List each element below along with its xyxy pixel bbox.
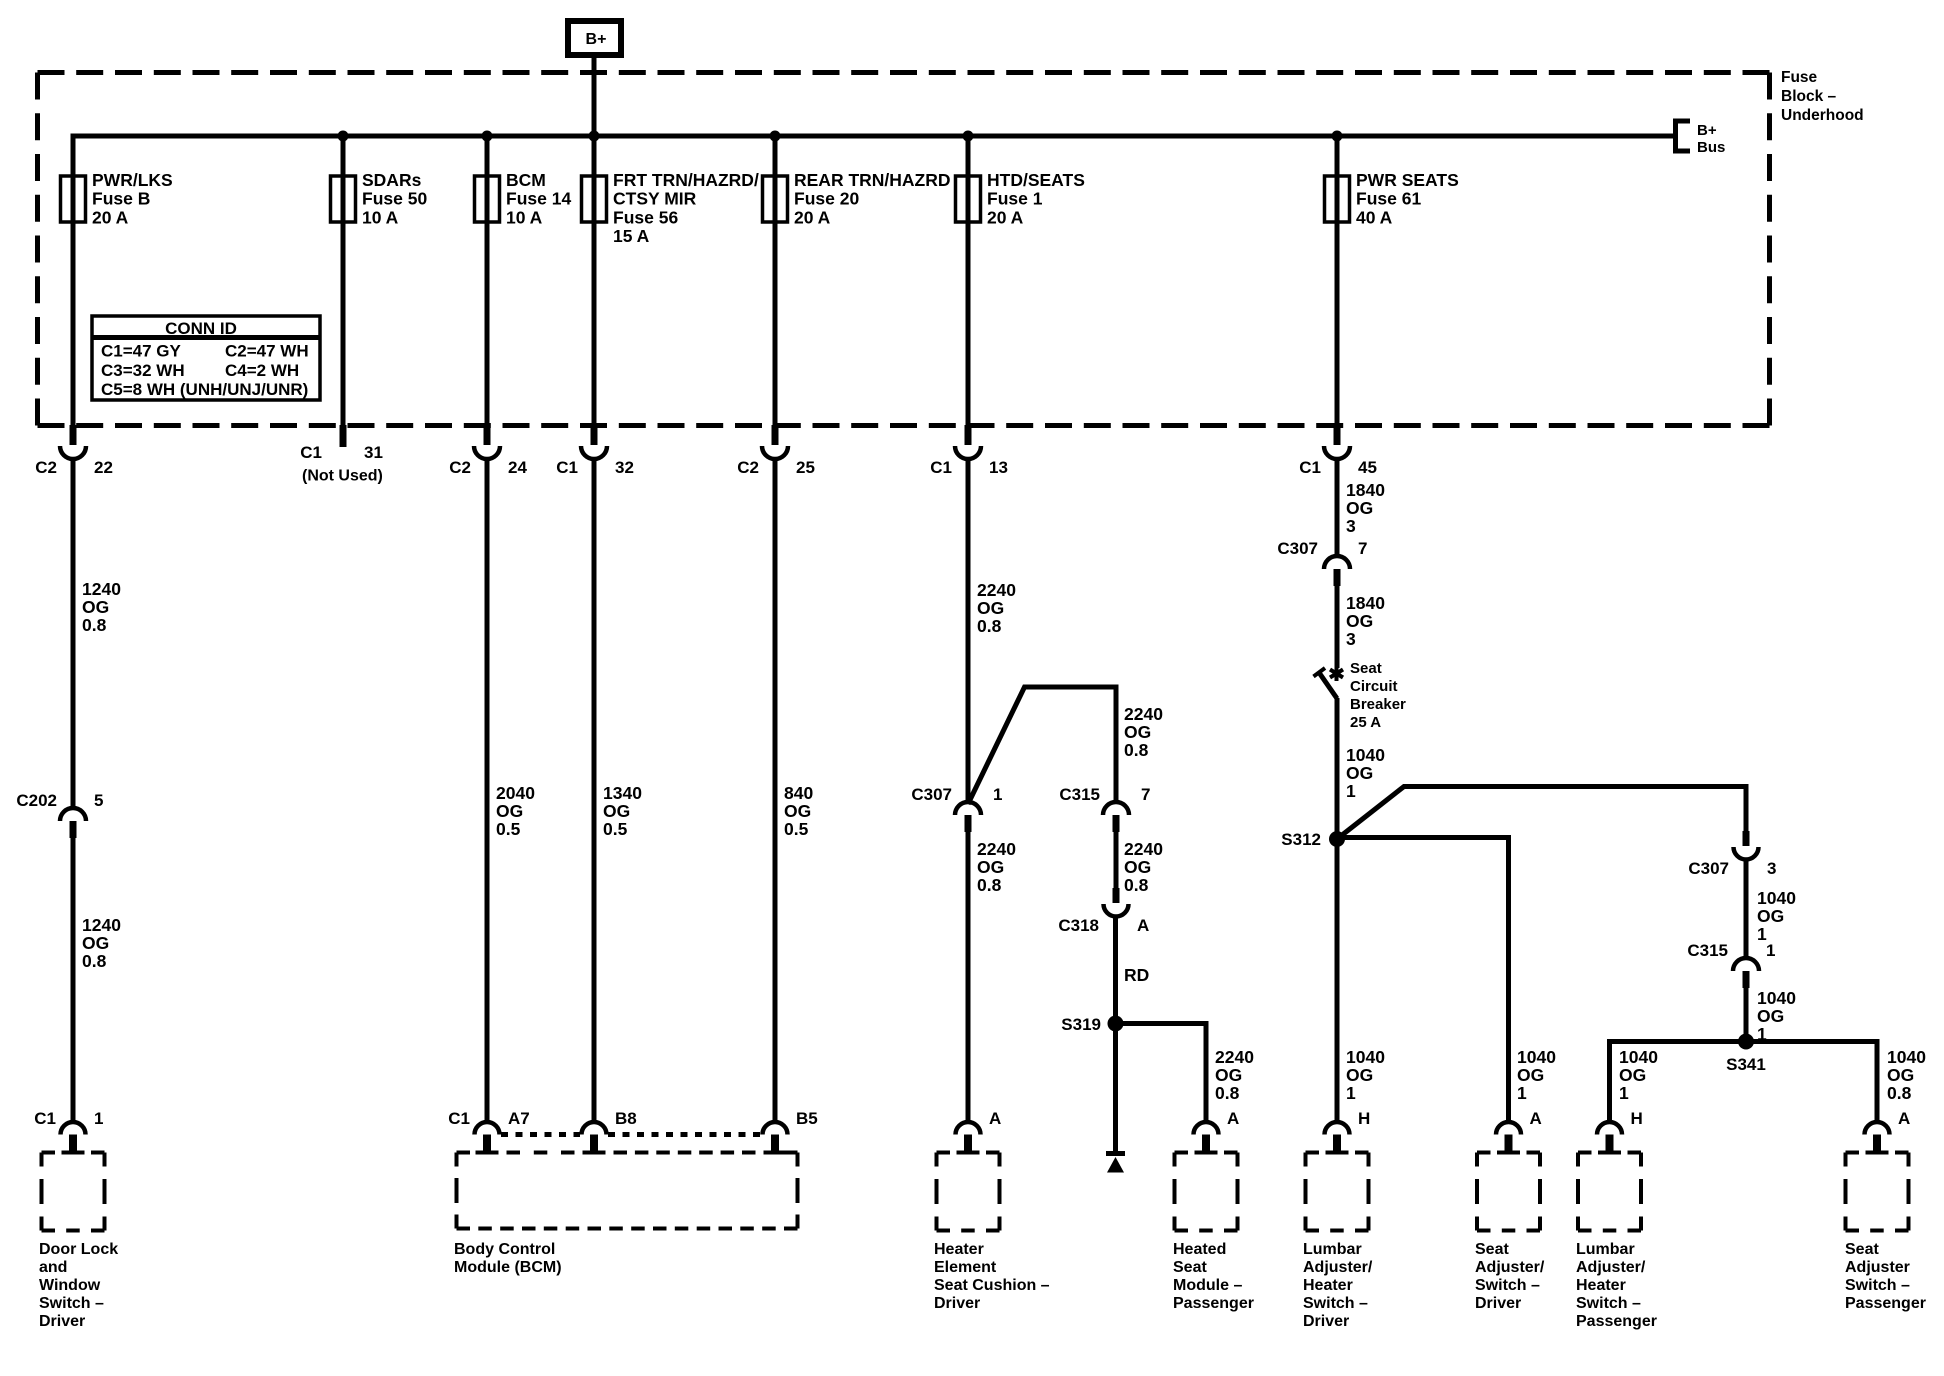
svg-text:C5=8 WH (UNH/UNJ/UNR): C5=8 WH (UNH/UNJ/UNR): [101, 380, 308, 399]
component pin B5: [763, 1109, 818, 1152]
svg-text:C1: C1: [556, 458, 578, 477]
svg-text:Block –: Block –: [1781, 88, 1837, 105]
svg-text:1: 1: [1517, 1083, 1527, 1103]
inline connector C307 pin 7: [1277, 539, 1367, 586]
svg-text:1340: 1340: [603, 783, 642, 803]
connector C2 pin 25 at fuse block exit x=775: [737, 425, 815, 477]
svg-text:C1: C1: [930, 458, 952, 477]
svg-text:Driver: Driver: [934, 1295, 980, 1312]
wire S312 diagonal branch to C307 pin 3: [1337, 787, 1746, 840]
wire PWR/LKS circuit 1240 upper: [71, 459, 76, 808]
svg-text:0.8: 0.8: [977, 875, 1002, 895]
svg-text:OG: OG: [784, 801, 811, 821]
svg-text:H: H: [1358, 1109, 1370, 1128]
svg-text:A7: A7: [508, 1109, 530, 1128]
svg-text:1: 1: [1346, 781, 1356, 801]
power node B+ box: [568, 21, 621, 55]
svg-text:20 A: 20 A: [987, 207, 1024, 227]
svg-text:A: A: [1137, 916, 1149, 935]
inline connector C318 pin A: [1058, 888, 1149, 935]
wire label 2240 OG 0.8: [1124, 839, 1163, 895]
component pin H: [1325, 1109, 1371, 1152]
wire PWR/LKS circuit 1240 lower: [71, 838, 76, 1122]
svg-text:32: 32: [615, 458, 634, 477]
connector C1 pin 31 (Not Used) stub: [300, 425, 383, 485]
inline connector C315 pin 7: [1059, 785, 1150, 832]
svg-text:10 A: 10 A: [506, 207, 543, 227]
svg-text:Seat: Seat: [1173, 1259, 1207, 1276]
svg-text:C1: C1: [448, 1109, 470, 1128]
splice S319: [1061, 1015, 1123, 1034]
wire label 1040 OG 1: [1757, 988, 1796, 1044]
svg-text:Lumbar: Lumbar: [1303, 1241, 1362, 1258]
svg-text:Switch –: Switch –: [1475, 1277, 1540, 1294]
svg-text:OG: OG: [1346, 1065, 1373, 1085]
svg-text:OG: OG: [1346, 611, 1373, 631]
inline connector C202 pin 5: [16, 791, 103, 838]
svg-text:1: 1: [1346, 1083, 1356, 1103]
wire label 1040 OG 0.8: [1887, 1047, 1926, 1103]
component pin A: [1194, 1109, 1240, 1152]
wire label 1040 OG 1: [1346, 745, 1385, 801]
svg-text:C2: C2: [449, 458, 471, 477]
svg-text:Fuse 14: Fuse 14: [506, 189, 571, 209]
svg-text:0.5: 0.5: [496, 819, 521, 839]
svg-text:Seat Cushion –: Seat Cushion –: [934, 1277, 1050, 1294]
fuse PWR/LKS Fuse B: [61, 170, 173, 227]
fuse BCM Fuse 14: [475, 170, 572, 227]
svg-text:0.8: 0.8: [1124, 740, 1149, 760]
svg-text:OG: OG: [496, 801, 523, 821]
svg-text:C2: C2: [35, 458, 57, 477]
wire circuit 1340: [592, 459, 597, 1122]
svg-text:Underhood: Underhood: [1781, 107, 1864, 124]
svg-text:CTSY MIR: CTSY MIR: [613, 189, 697, 209]
wire label 2240 OG 0.8: [1124, 704, 1163, 760]
svg-text:1840: 1840: [1346, 480, 1385, 500]
svg-text:1040: 1040: [1346, 1047, 1385, 1067]
svg-text:Fuse 1: Fuse 1: [987, 189, 1043, 209]
fuse SDARs Fuse 50: [331, 170, 428, 227]
svg-text:RD: RD: [1124, 965, 1149, 985]
svg-text:Element: Element: [934, 1259, 997, 1276]
svg-text:S312: S312: [1281, 830, 1321, 849]
wire C315 to C318: [1114, 832, 1119, 888]
svg-text:0.5: 0.5: [784, 819, 809, 839]
svg-text:Fuse: Fuse: [1781, 69, 1818, 86]
svg-text:25: 25: [796, 458, 815, 477]
svg-text:Driver: Driver: [39, 1313, 85, 1330]
svg-text:Driver: Driver: [1475, 1295, 1521, 1312]
svg-text:15 A: 15 A: [613, 226, 650, 246]
svg-text:PWR SEATS: PWR SEATS: [1356, 170, 1459, 190]
wire RD to S319 and arrow end: [1113, 916, 1118, 1153]
junction on bus at x=343: [338, 131, 349, 142]
wire heater element drop: [966, 832, 971, 1122]
svg-text:Fuse 20: Fuse 20: [794, 189, 859, 209]
svg-text:2240: 2240: [1124, 839, 1163, 859]
svg-text:1: 1: [1619, 1083, 1629, 1103]
wire BCM circuit 2040: [485, 459, 490, 1122]
svg-text:Passenger: Passenger: [1173, 1295, 1254, 1312]
svg-text:2240: 2240: [977, 839, 1016, 859]
svg-text:2040: 2040: [496, 783, 535, 803]
wire label 840 OG 0.5: [784, 783, 813, 839]
svg-text:3: 3: [1346, 629, 1356, 649]
svg-text:OG: OG: [1215, 1065, 1242, 1085]
svg-text:C202: C202: [16, 791, 57, 810]
svg-text:A: A: [1227, 1109, 1239, 1128]
wire label 2040 OG 0.5: [496, 783, 535, 839]
svg-text:Switch –: Switch –: [39, 1295, 104, 1312]
splice S341: [1726, 1034, 1766, 1075]
svg-text:A: A: [989, 1109, 1001, 1128]
svg-text:C307: C307: [911, 785, 952, 804]
svg-text:B8: B8: [615, 1109, 637, 1128]
wire HTD/SEATS circuit 2240 upper: [966, 459, 971, 802]
component box Heater: [937, 1153, 1000, 1231]
svg-text:C307: C307: [1688, 859, 1729, 878]
component box Lumbar: [1578, 1153, 1641, 1231]
junction on bus at x=968: [963, 131, 974, 142]
B+ bus horizontal wire: [73, 136, 1673, 180]
svg-text:Module –: Module –: [1173, 1277, 1242, 1294]
component pin 1: [34, 1109, 103, 1152]
svg-text:1: 1: [993, 785, 1002, 804]
inline connector C315 pin 1: [1687, 941, 1775, 988]
svg-text:Heated: Heated: [1173, 1241, 1226, 1258]
svg-text:C1=47 GY: C1=47 GY: [101, 342, 182, 361]
svg-text:Fuse 50: Fuse 50: [362, 189, 427, 209]
svg-text:OG: OG: [1124, 857, 1151, 877]
svg-text:1040: 1040: [1619, 1047, 1658, 1067]
svg-text:and: and: [39, 1259, 67, 1276]
svg-text:1040: 1040: [1517, 1047, 1556, 1067]
inline connector C307 pin 1: [911, 785, 1002, 832]
svg-text:OG: OG: [1619, 1065, 1646, 1085]
svg-text:B+: B+: [586, 31, 607, 48]
wire B+ box to bus: [592, 55, 597, 136]
svg-text:Heater: Heater: [1303, 1277, 1353, 1294]
svg-text:(Not Used): (Not Used): [302, 468, 383, 485]
wire S312 branch to seat adjuster driver: [1337, 838, 1509, 1123]
svg-text:7: 7: [1358, 539, 1367, 558]
svg-text:1040: 1040: [1757, 888, 1796, 908]
svg-text:OG: OG: [1887, 1065, 1914, 1085]
svg-text:C2=47 WH: C2=47 WH: [225, 342, 309, 361]
wire bus down through fuse x=775: [773, 136, 778, 426]
connector C2 pin 22 at fuse block exit x=73: [35, 425, 113, 477]
svg-text:C1: C1: [1299, 458, 1321, 477]
fuse REAR TRN/HAZRD Fuse 20: [763, 170, 951, 227]
component box Lumbar: [1306, 1153, 1369, 1231]
wire label 1040 OG 1: [1757, 888, 1796, 944]
svg-text:OG: OG: [977, 598, 1004, 618]
svg-text:CONN ID: CONN ID: [165, 319, 237, 338]
component box Door Lock: [42, 1153, 105, 1231]
svg-text:A: A: [1530, 1109, 1542, 1128]
svg-text:20 A: 20 A: [92, 207, 129, 227]
connector C1 pin 32 at fuse block exit x=594: [556, 425, 634, 477]
svg-text:3: 3: [1767, 859, 1776, 878]
junction on bus at x=594: [589, 131, 600, 142]
svg-text:40 A: 40 A: [1356, 207, 1393, 227]
component box Heated: [1175, 1153, 1238, 1231]
svg-text:25 A: 25 A: [1350, 714, 1381, 731]
wire breaker to S312 to lumbar driver switch: [1335, 698, 1340, 1122]
svg-text:Circuit: Circuit: [1350, 678, 1398, 695]
svg-text:7: 7: [1141, 785, 1150, 804]
svg-text:SDARs: SDARs: [362, 170, 422, 190]
svg-text:1040: 1040: [1887, 1047, 1926, 1067]
svg-text:C318: C318: [1058, 916, 1099, 935]
svg-text:1240: 1240: [82, 915, 121, 935]
svg-text:REAR TRN/HAZRD: REAR TRN/HAZRD: [794, 170, 951, 190]
svg-text:0.8: 0.8: [1215, 1083, 1240, 1103]
connector C1 pin 13 at fuse block exit x=968: [930, 425, 1008, 477]
wire bus down through fuse x=968: [966, 136, 971, 426]
svg-text:Seat: Seat: [1845, 1241, 1879, 1258]
svg-text:Door Lock: Door Lock: [39, 1241, 118, 1258]
fuse FRT TRN/HAZRD/ CTSY MIR: [582, 170, 759, 246]
svg-text:840: 840: [784, 783, 813, 803]
wire C307 pin3 to C315 pin1: [1744, 859, 1749, 959]
wire label 1340 OG 0.5: [603, 783, 642, 839]
circuit breaker Seat Circuit Breaker 25 A: [1314, 660, 1407, 731]
junction on bus at x=487: [482, 131, 493, 142]
svg-text:OG: OG: [1757, 906, 1784, 926]
component pin A: [1496, 1109, 1542, 1152]
svg-text:H: H: [1631, 1109, 1643, 1128]
svg-text:Passenger: Passenger: [1576, 1313, 1657, 1330]
wire bus down through fuse x=1337: [1335, 136, 1340, 426]
component pin A: [956, 1109, 1002, 1152]
svg-text:OG: OG: [82, 933, 109, 953]
svg-text:1: 1: [1757, 1024, 1767, 1044]
svg-text:C2: C2: [737, 458, 759, 477]
svg-text:Seat: Seat: [1475, 1241, 1509, 1258]
svg-text:0.5: 0.5: [603, 819, 628, 839]
wire S341 bus to lumbar passenger and seat adjuster passenger: [1610, 1042, 1878, 1123]
wire 1840 lower to breaker: [1335, 586, 1340, 668]
wire label 1040 OG 1: [1346, 1047, 1385, 1103]
svg-text:Module (BCM): Module (BCM): [454, 1259, 562, 1276]
svg-text:Passenger: Passenger: [1845, 1295, 1926, 1312]
svg-text:Adjuster/: Adjuster/: [1475, 1259, 1545, 1276]
off-page arrow terminator: [1106, 1154, 1125, 1173]
svg-text:Bus: Bus: [1697, 139, 1725, 156]
svg-text:C315: C315: [1059, 785, 1100, 804]
svg-text:Adjuster/: Adjuster/: [1576, 1259, 1646, 1276]
svg-text:0.8: 0.8: [82, 615, 107, 635]
wire label 1040 OG 1: [1619, 1047, 1658, 1103]
svg-text:Fuse 56: Fuse 56: [613, 207, 678, 227]
svg-text:Fuse 61: Fuse 61: [1356, 189, 1421, 209]
svg-text:2240: 2240: [1215, 1047, 1254, 1067]
svg-text:PWR/LKS: PWR/LKS: [92, 170, 173, 190]
svg-text:31: 31: [364, 443, 383, 462]
svg-text:Switch –: Switch –: [1576, 1295, 1641, 1312]
wire label 1240 OG 0.8: [82, 579, 121, 635]
wire bus down through fuse x=73: [71, 136, 76, 426]
svg-text:0.8: 0.8: [82, 951, 107, 971]
svg-text:OG: OG: [603, 801, 630, 821]
wire label 2240 OG 0.8: [1215, 1047, 1254, 1103]
svg-text:Fuse B: Fuse B: [92, 189, 150, 209]
fuse block - underhood dashed outline: [38, 73, 1770, 426]
svg-text:Breaker: Breaker: [1350, 696, 1406, 713]
svg-text:Driver: Driver: [1303, 1313, 1349, 1330]
wire color label RD: [1124, 965, 1149, 985]
svg-text:Heater: Heater: [1576, 1277, 1626, 1294]
wire label 1840 OG 3: [1346, 480, 1385, 536]
svg-text:S341: S341: [1726, 1055, 1766, 1074]
B+ Bus terminal bracket: [1676, 121, 1726, 156]
junction on bus at x=775: [770, 131, 781, 142]
svg-text:20 A: 20 A: [794, 207, 831, 227]
svg-text:B5: B5: [796, 1109, 818, 1128]
svg-text:Heater: Heater: [934, 1241, 984, 1258]
svg-text:OG: OG: [1124, 722, 1151, 742]
svg-text:22: 22: [94, 458, 113, 477]
wire PWR SEATS circuit 1840 upper: [1335, 459, 1340, 556]
splice S312: [1281, 830, 1345, 849]
svg-text:OG: OG: [977, 857, 1004, 877]
component box Body Control: [457, 1153, 798, 1229]
wire label 1840 OG 3: [1346, 593, 1385, 649]
svg-text:B+: B+: [1697, 122, 1717, 139]
svg-text:C3=32 WH: C3=32 WH: [101, 361, 185, 380]
wire bus down through fuse x=343: [341, 136, 346, 426]
svg-text:2240: 2240: [1124, 704, 1163, 724]
svg-text:FRT TRN/HAZRD/: FRT TRN/HAZRD/: [613, 170, 759, 190]
svg-text:1: 1: [1766, 941, 1775, 960]
fuse PWR SEATS Fuse 61: [1325, 170, 1459, 227]
svg-text:3: 3: [1346, 516, 1356, 536]
svg-text:45: 45: [1358, 458, 1377, 477]
wire S319 branch to heated seat module: [1116, 1024, 1207, 1123]
svg-text:2240: 2240: [977, 580, 1016, 600]
svg-text:OG: OG: [1346, 498, 1373, 518]
CONN ID table: [92, 316, 320, 400]
component pin A7: [448, 1109, 529, 1152]
svg-text:OG: OG: [82, 597, 109, 617]
svg-text:S319: S319: [1061, 1015, 1101, 1034]
svg-text:1: 1: [1757, 924, 1767, 944]
svg-text:C4=2 WH: C4=2 WH: [225, 361, 299, 380]
svg-text:13: 13: [989, 458, 1008, 477]
wire bus down through fuse x=487: [485, 136, 490, 426]
svg-text:Seat: Seat: [1350, 660, 1382, 677]
svg-text:OG: OG: [1757, 1006, 1784, 1026]
component pin H: [1597, 1109, 1643, 1152]
component pin A: [1865, 1109, 1911, 1152]
svg-text:5: 5: [94, 791, 103, 810]
svg-text:Window: Window: [39, 1277, 101, 1294]
svg-text:OG: OG: [1517, 1065, 1544, 1085]
svg-text:OG: OG: [1346, 763, 1373, 783]
svg-text:0.8: 0.8: [1124, 875, 1149, 895]
svg-text:0.8: 0.8: [977, 616, 1002, 636]
svg-text:A: A: [1898, 1109, 1910, 1128]
wire label 1040 OG 1: [1517, 1047, 1556, 1103]
wire branch diagonal to C315: [968, 687, 1116, 804]
svg-text:C1: C1: [34, 1109, 56, 1128]
svg-text:C1: C1: [300, 443, 322, 462]
svg-text:Body Control: Body Control: [454, 1241, 555, 1258]
connector C1 pin 45 at fuse block exit x=1337: [1299, 425, 1377, 477]
svg-text:Adjuster: Adjuster: [1845, 1259, 1910, 1276]
component pin B8: [582, 1109, 637, 1152]
inline connector C307 pin 3: [1688, 831, 1776, 878]
svg-text:10 A: 10 A: [362, 207, 399, 227]
svg-text:0.8: 0.8: [1887, 1083, 1912, 1103]
svg-text:1040: 1040: [1346, 745, 1385, 765]
connector C2 pin 24 at fuse block exit x=487: [449, 425, 527, 477]
wire bus down through FRT TRN fuse: [592, 136, 597, 426]
svg-text:1: 1: [94, 1109, 103, 1128]
svg-text:HTD/SEATS: HTD/SEATS: [987, 170, 1085, 190]
wire label 1240 OG 0.8: [82, 915, 121, 971]
svg-text:Lumbar: Lumbar: [1576, 1241, 1635, 1258]
fuse HTD/SEATS Fuse 1: [956, 170, 1085, 227]
component box Seat: [1477, 1153, 1540, 1231]
svg-text:C315: C315: [1687, 941, 1728, 960]
fuse block label: [1781, 69, 1864, 124]
svg-text:1840: 1840: [1346, 593, 1385, 613]
junction on bus at x=1337: [1332, 131, 1343, 142]
svg-text:1240: 1240: [82, 579, 121, 599]
wire label 2240 OG 0.8: [977, 580, 1016, 636]
svg-text:Adjuster/: Adjuster/: [1303, 1259, 1373, 1276]
wire C315 pin1 to S341: [1744, 988, 1749, 1042]
svg-text:24: 24: [508, 458, 527, 477]
svg-text:1040: 1040: [1757, 988, 1796, 1008]
wire circuit 840: [773, 459, 778, 1122]
component box Seat: [1846, 1153, 1909, 1231]
svg-text:Switch –: Switch –: [1845, 1277, 1910, 1294]
wire label 2240 OG 0.8: [977, 839, 1016, 895]
dotted line linking BCM pins: [501, 1132, 580, 1137]
svg-text:C307: C307: [1277, 539, 1318, 558]
svg-text:BCM: BCM: [506, 170, 546, 190]
svg-text:Switch –: Switch –: [1303, 1295, 1368, 1312]
